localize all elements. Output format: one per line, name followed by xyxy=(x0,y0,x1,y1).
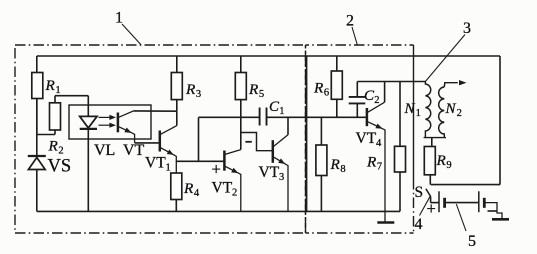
svg-text:R: R xyxy=(48,138,59,155)
svg-text:1: 1 xyxy=(55,85,60,96)
wire: right loop of output circuit xyxy=(499,56,501,185)
svg-text:+: + xyxy=(427,199,436,218)
resistor R7 xyxy=(399,82,401,147)
resistor R8 xyxy=(320,117,322,145)
svg-text:2: 2 xyxy=(58,146,63,157)
svg-text:1: 1 xyxy=(166,163,171,174)
svg-text:R: R xyxy=(436,152,447,169)
wire: supply tap riser (box divider) xyxy=(306,56,308,211)
wire: switch to battery xyxy=(431,202,439,204)
wire: oscillator top line to N1 xyxy=(357,81,425,83)
wire: coupling line A xyxy=(199,116,260,118)
svg-text:1: 1 xyxy=(416,108,421,119)
svg-text:R: R xyxy=(183,180,194,197)
svg-text:VT: VT xyxy=(123,142,145,159)
wire: N2 output with arrow xyxy=(444,83,458,87)
svg-text:+: + xyxy=(212,160,221,179)
svg-text:2: 2 xyxy=(346,13,354,30)
transformer winding N1 xyxy=(425,82,430,138)
zener diode VS xyxy=(28,155,46,157)
wire: left edge of main circuit (VS branch) xyxy=(36,56,38,155)
wire: R1/R2 junction to VS xyxy=(36,99,38,135)
dash-dot enclosure box 1 (left PCB outline) xyxy=(15,45,306,233)
svg-text:1: 1 xyxy=(279,106,284,117)
svg-text:4: 4 xyxy=(415,216,423,233)
resistor R4 xyxy=(171,173,182,200)
svg-text:R: R xyxy=(330,156,341,173)
wire: battery to ground xyxy=(484,203,502,219)
svg-text:3: 3 xyxy=(279,172,284,183)
wire: VT2 collector node to VT3 base xyxy=(241,133,273,151)
wire: VT collector to R3/VT1 junction xyxy=(134,110,177,112)
svg-text:R: R xyxy=(366,154,377,171)
wire: VT1 emitter node to VT2 base xyxy=(176,160,224,162)
svg-text:1: 1 xyxy=(115,10,123,27)
svg-text:5: 5 xyxy=(259,89,264,100)
light arrow 2 xyxy=(99,124,112,126)
svg-text:2: 2 xyxy=(374,95,379,106)
resistor R6 xyxy=(336,56,338,71)
svg-text:VT: VT xyxy=(212,180,233,197)
svg-text:4: 4 xyxy=(194,188,200,199)
svg-text:VT: VT xyxy=(259,164,280,181)
svg-text:2: 2 xyxy=(232,188,237,199)
wire: top supply rail xyxy=(37,55,500,57)
leader line for label 3 xyxy=(425,35,465,82)
ground (VT4 emitter) xyxy=(377,221,394,224)
svg-text:2: 2 xyxy=(457,108,462,119)
battery cell 2 xyxy=(478,191,480,212)
svg-text:9: 9 xyxy=(446,160,451,171)
svg-text:N: N xyxy=(445,101,457,117)
wire: R2 top to optocoupler LED anode xyxy=(54,96,56,103)
svg-text:R: R xyxy=(185,81,196,98)
battery cell 1 xyxy=(438,191,440,212)
capacitor C1 xyxy=(259,108,261,126)
svg-text:4: 4 xyxy=(376,138,382,149)
light arrow 1 xyxy=(99,116,112,118)
svg-text:5: 5 xyxy=(468,233,476,250)
svg-text:N: N xyxy=(404,101,416,117)
phototransistor VT xyxy=(117,113,120,133)
transformer winding N2 xyxy=(439,87,445,138)
leader line for label 4 xyxy=(420,196,431,215)
transistor VT1 xyxy=(159,131,162,152)
resistor R9 xyxy=(424,147,435,175)
leader line for label 5 xyxy=(456,204,466,231)
svg-text:R: R xyxy=(45,77,56,94)
wire: transformer bottom bar to R9 xyxy=(424,137,446,139)
switch S xyxy=(426,189,431,197)
LED VL inside optocoupler xyxy=(80,116,97,128)
svg-text:VS: VS xyxy=(48,157,72,177)
wire: bottom rail xyxy=(37,210,400,212)
wire: between battery cells xyxy=(445,202,479,204)
svg-text:6: 6 xyxy=(324,88,329,99)
resistor R1 xyxy=(32,73,43,99)
dash-dot enclosure box 2 (right PCB outline) xyxy=(306,44,414,46)
wire: VT emitter to VT1 base xyxy=(135,142,160,144)
label minus (VT3 base) xyxy=(245,141,251,143)
svg-text:3: 3 xyxy=(463,20,471,37)
optocoupler package box xyxy=(69,105,151,139)
resistor R2 xyxy=(54,130,56,135)
resistor R5 xyxy=(240,56,242,73)
svg-text:VT: VT xyxy=(145,155,166,172)
wire: VL cathode down to bottom rail xyxy=(87,129,89,212)
svg-text:VT: VT xyxy=(356,130,377,147)
svg-text:S: S xyxy=(415,184,424,201)
label minus (battery) xyxy=(488,210,497,212)
leader line for label 2 xyxy=(352,27,358,46)
leader line for label 1 xyxy=(122,24,141,45)
wire: riser to coupling line A xyxy=(198,117,200,161)
resistor R3 xyxy=(176,56,178,73)
transistor VT3 xyxy=(272,140,275,163)
transistor VT2 xyxy=(223,151,226,171)
capacitor C2 xyxy=(356,82,358,97)
ground (battery) xyxy=(492,218,509,221)
svg-text:VL: VL xyxy=(94,142,115,159)
svg-text:7: 7 xyxy=(377,162,382,173)
transistor VT4 xyxy=(366,108,369,126)
svg-text:8: 8 xyxy=(340,164,345,175)
svg-text:R: R xyxy=(313,80,324,97)
svg-text:R: R xyxy=(248,81,259,98)
svg-text:3: 3 xyxy=(196,89,201,100)
